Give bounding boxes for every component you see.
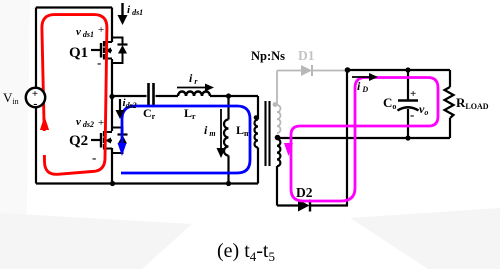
svg-text:+: + <box>410 88 416 100</box>
node Lr-Lm junction dot <box>226 93 231 98</box>
transistor Q2 <box>91 128 128 154</box>
current arrow i_ds2 <box>116 97 137 119</box>
node center tap dot <box>275 135 281 141</box>
svg-text:-: - <box>92 150 96 165</box>
wire bottom rail <box>36 182 258 184</box>
wire D2 bottom <box>277 204 298 206</box>
current arrow i_ds1 <box>118 3 144 25</box>
diode D1 (inactive, gray) <box>277 48 346 76</box>
current arrow i_r <box>177 71 214 92</box>
transformer core <box>266 101 270 166</box>
svg-text:(e) t4-t5: (e) t4-t5 <box>217 240 275 264</box>
svg-text:+: + <box>98 117 104 129</box>
transformer primary winding <box>255 96 259 184</box>
current arrow i_D <box>352 73 378 94</box>
svg-text:Q2: Q2 <box>69 133 88 149</box>
wire output bottom rail <box>278 137 451 139</box>
transistor Q1 <box>91 38 128 64</box>
node bottom-rail dot under Q2 <box>110 181 115 186</box>
svg-text:Np:Ns: Np:Ns <box>251 49 285 63</box>
svg-text:-: - <box>97 55 101 70</box>
wire half-bridge leg <box>111 8 113 184</box>
inductor Lr <box>178 92 210 97</box>
node A rectifier output dot <box>345 67 351 73</box>
current arrow i_m <box>204 109 226 158</box>
transformer secondary top winding (inactive, gray) <box>277 71 281 134</box>
svg-text:Q1: Q1 <box>69 45 88 61</box>
inductor Lm <box>224 96 229 184</box>
svg-text:+: + <box>98 24 104 36</box>
resistor R_LOAD <box>445 70 454 138</box>
wire switch node to transformer <box>112 95 258 97</box>
svg-text:-: - <box>33 97 37 111</box>
node Lm bottom dot <box>226 181 231 186</box>
magenta output current loop <box>284 78 438 202</box>
diode D2 <box>296 185 313 212</box>
source Vin <box>3 88 45 111</box>
wire rectifier riser <box>346 70 348 206</box>
wire output top rail <box>347 69 450 71</box>
capacitor Cr <box>149 83 154 107</box>
red Q1 current loop <box>40 15 107 175</box>
node secondary gray polarity dot <box>273 102 278 107</box>
capacitor Co <box>398 70 419 138</box>
node Co bottom dot <box>405 135 410 140</box>
wire top rail <box>36 6 112 8</box>
svg-text:D1: D1 <box>298 48 315 63</box>
blue resonant current loop <box>118 106 251 173</box>
wire D2 to riser <box>310 204 348 206</box>
node Co top dot <box>405 67 410 72</box>
node primary polarity dot <box>254 115 259 120</box>
node switch-node dot <box>109 94 114 99</box>
svg-text:D2: D2 <box>296 185 313 200</box>
wire left vertical <box>35 8 37 184</box>
svg-text:-: - <box>410 107 414 122</box>
transformer secondary bottom winding <box>277 139 280 206</box>
